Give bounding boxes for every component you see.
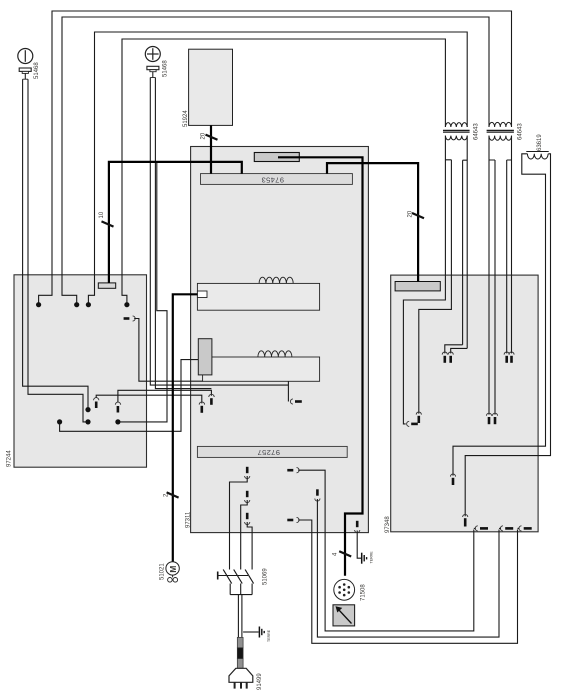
contact s2 <box>245 491 250 503</box>
wire s2 to switch2 <box>241 500 248 570</box>
svg-text:TERRE: TERRE <box>370 551 374 564</box>
svg-text:64643: 64643 <box>474 123 480 140</box>
svg-text:51021: 51021 <box>160 563 166 580</box>
wire relay U2 pin down <box>287 381 289 401</box>
svg-text:97453: 97453 <box>261 176 284 185</box>
thick wire relay U1 to motor with slash 2 <box>167 294 198 561</box>
relay U2 lower <box>203 351 320 381</box>
connector 71508 <box>334 579 355 600</box>
node dot5 lower <box>85 407 90 412</box>
wire cable to ground <box>243 631 259 633</box>
contact c2 (central box) <box>209 394 214 405</box>
contact s6 <box>287 517 299 522</box>
left box 97244 <box>14 275 147 467</box>
svg-text:97257: 97257 <box>257 448 280 457</box>
wire loop3 <box>88 32 467 303</box>
transformer TX2 64643 <box>487 122 514 140</box>
svg-text:97348: 97348 <box>385 516 391 533</box>
wire lamp1 right <box>28 79 86 422</box>
svg-text:51069: 51069 <box>263 568 269 585</box>
contact bottom r1 <box>474 526 488 531</box>
left box connector bar <box>98 283 115 288</box>
wire LBc2 to c2 <box>118 390 211 402</box>
contact s4 <box>287 468 299 473</box>
svg-text:20: 20 <box>408 210 414 217</box>
contact LBtr (left box right side) <box>124 316 136 321</box>
wire s3 to switch3 <box>247 522 252 570</box>
thick wire T4 to right box bar with slash 20 <box>327 163 424 281</box>
thick wire T3 display bar to 71508 with slash 4 <box>278 157 363 576</box>
wire loop4 <box>122 39 445 303</box>
wire TX2 left pair down <box>489 136 495 276</box>
thick bus T1 with slash 10 <box>102 162 242 283</box>
wire TX1 right pair jog to pair contacts <box>445 345 467 354</box>
central box 97311 <box>191 147 369 533</box>
wire dot8 to bus tap <box>120 163 167 422</box>
node dot1 top row <box>36 302 41 307</box>
ground TERRE cable <box>259 627 264 638</box>
relay U1 upper <box>197 277 319 310</box>
contact c1 (central box) <box>199 402 204 413</box>
wire loop2 <box>62 17 489 303</box>
wire loopB1 inner bottom loop <box>298 470 474 631</box>
contact s3 <box>245 513 250 525</box>
svg-text:64643: 64643 <box>518 123 524 140</box>
connector rect dark (relay U2 input) <box>198 339 212 375</box>
contact relay U2 mating <box>290 399 301 404</box>
svg-text:51924: 51924 <box>183 110 189 127</box>
contact s5 <box>315 489 320 501</box>
wire TX1 left pair down <box>445 136 451 276</box>
lamp B1 51468 <box>18 49 33 80</box>
svg-text:97244: 97244 <box>7 450 13 467</box>
node dot4 top row <box>124 302 129 307</box>
lamp B2 51468 <box>145 47 160 78</box>
wire 63619 left to right box mid contact <box>453 154 546 476</box>
contact right box B vertical <box>416 412 421 423</box>
box 51924 <box>189 49 233 125</box>
wire LBtr to relay2 corner <box>134 319 202 382</box>
svg-text:10: 10 <box>99 211 105 218</box>
ground TERRE right <box>362 553 367 564</box>
cable striped <box>237 637 243 668</box>
switch bank 51069 <box>218 570 254 638</box>
transformer TX1 64643 <box>443 123 470 140</box>
node dot2 top row <box>74 302 79 307</box>
wire right box B from TX1 <box>419 275 452 414</box>
svg-text:91499: 91499 <box>257 673 263 690</box>
right box 97348 <box>391 275 538 532</box>
wire s7 to ground <box>357 531 361 559</box>
right box connector bar <box>395 282 440 291</box>
contact LBc2 <box>115 402 120 412</box>
wire right box A from TX1 <box>403 275 445 424</box>
wire 63619 right to right box bottom contact <box>465 154 550 516</box>
bar 97453 <box>201 174 353 185</box>
node dot7 bottom row <box>85 419 90 424</box>
wire LBc1 to c1 <box>96 395 202 403</box>
coil 63619 <box>526 152 548 160</box>
bar 97257 <box>197 446 347 457</box>
svg-text:20: 20 <box>201 132 207 139</box>
plug 91499 <box>229 668 253 688</box>
contact pair p2 <box>504 352 514 363</box>
wire loop1 : lamp wires outer frame <box>39 11 512 303</box>
contact bottom r2 <box>499 526 513 531</box>
motor 51021 <box>166 562 179 582</box>
wire TX2 right pair down <box>507 136 512 276</box>
wire s1 to switch1 <box>230 476 248 570</box>
svg-text:63619: 63619 <box>537 134 543 151</box>
wire lamp2 left long to relay2 pin <box>150 78 288 386</box>
wire loopB3 outer bottom loop <box>298 520 517 643</box>
thick wire T2 from 51924 with slash 20 <box>206 125 218 173</box>
svg-text:TERRE: TERRE <box>267 629 271 642</box>
wire TX2 pairs into right box <box>489 275 512 415</box>
node dot8 bottom row <box>115 419 120 424</box>
contact right box A horizontal <box>407 421 418 426</box>
display connector bar <box>254 153 299 162</box>
wire lamp2 right <box>155 78 211 389</box>
contact LBc1 <box>94 398 99 408</box>
contact pair p1 <box>442 352 453 363</box>
contact bottom r3 <box>518 526 532 531</box>
wire TX1 right pair down <box>463 136 468 349</box>
svg-text:M: M <box>168 566 178 573</box>
wire dot6 to relay2 connector <box>60 360 199 432</box>
svg-text:71508: 71508 <box>361 584 367 601</box>
contact mid right box <box>450 474 455 485</box>
contact s7 <box>355 521 360 533</box>
contact s1 <box>245 467 250 479</box>
node dot3 top row <box>86 302 91 307</box>
svg-text:97311: 97311 <box>186 511 192 528</box>
node dot6 bottom row <box>57 419 62 424</box>
contact bottom right box inner <box>463 514 468 526</box>
svg-text:51468: 51468 <box>34 62 40 79</box>
wire lamp1 left <box>23 79 88 407</box>
lamp box with arrow <box>333 605 355 626</box>
wire loopB2 middle bottom loop <box>317 499 499 637</box>
contact pair p3 bottom <box>486 413 497 424</box>
svg-text:51468: 51468 <box>163 60 169 77</box>
